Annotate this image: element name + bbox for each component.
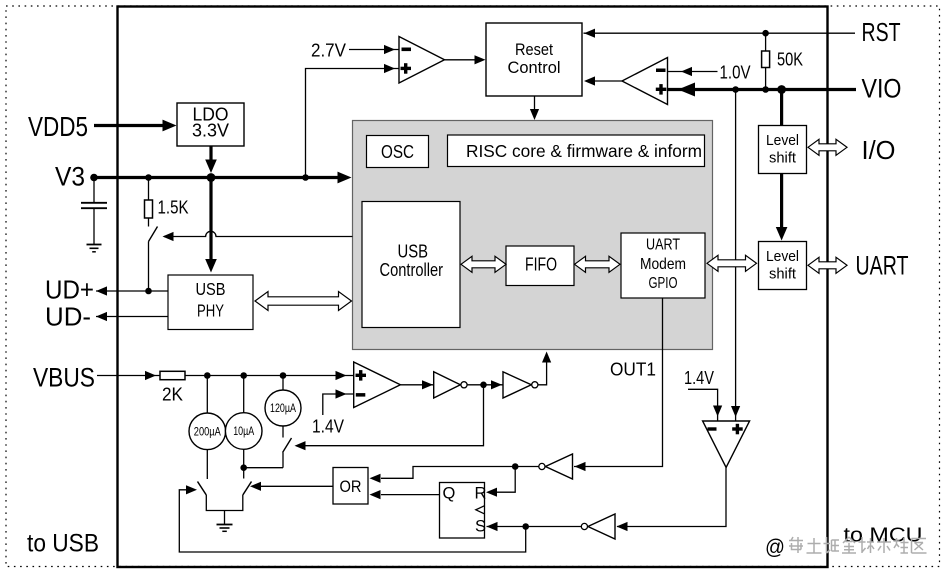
svg-text:to USB: to USB xyxy=(27,530,99,558)
bus arrow UART Modem GPIO to Level shift 2 xyxy=(707,255,757,271)
side label to MCU xyxy=(844,525,923,547)
bus arrow Level shift 2 to UART xyxy=(808,257,847,273)
wire VDD5 to LDO xyxy=(94,120,177,132)
svg-text:2.7V: 2.7V xyxy=(311,40,347,61)
wire feedback loop S node to Q1 base xyxy=(179,490,525,552)
inverter U8 xyxy=(581,514,615,539)
net label OUT1 xyxy=(610,360,656,380)
wire comparator U3 output to Reset Control xyxy=(584,76,622,85)
ground under C1 xyxy=(87,245,102,252)
svg-text:3.3V: 3.3V xyxy=(192,120,230,141)
transistor Q2 xyxy=(243,482,261,496)
pin label RST xyxy=(862,17,901,47)
svg-text:Controller: Controller xyxy=(380,260,444,280)
block UART Modem GPIO xyxy=(621,233,705,298)
switch S2 under I3 xyxy=(244,426,292,468)
svg-text:shift: shift xyxy=(769,266,797,283)
block Level shift 1 xyxy=(759,126,807,174)
svg-text:Q: Q xyxy=(443,485,456,503)
wire V3 to USB PHY xyxy=(205,178,217,273)
net UD+ xyxy=(96,286,168,295)
wire Level shift 1 to Level shift 2 xyxy=(776,174,788,241)
block RISC core and firmware xyxy=(448,135,705,167)
block USB PHY xyxy=(168,275,253,330)
pin label V3 xyxy=(55,162,85,192)
svg-text:1.4V: 1.4V xyxy=(312,417,344,437)
wire comparator U4 output to buffer U5 xyxy=(400,380,433,389)
svg-text:Level: Level xyxy=(766,132,799,149)
capacitor C1 on V3 xyxy=(81,178,107,245)
wire OUT1 from UART block to inverter U9 xyxy=(574,298,663,471)
svg-text:1.0V: 1.0V xyxy=(720,63,751,83)
net VBUS xyxy=(97,371,160,380)
resistor R3 50K xyxy=(762,33,770,89)
svg-text:to MCU: to MCU xyxy=(844,525,923,547)
svg-text:PHY: PHY xyxy=(197,301,224,321)
svg-text:Level: Level xyxy=(766,248,799,265)
node V3 rail xyxy=(90,172,351,184)
regulator U-LDO 3.3V xyxy=(177,103,244,146)
value label 2.7V xyxy=(311,40,347,61)
wire enable from node to switch S2 xyxy=(295,385,484,451)
svg-text:2K: 2K xyxy=(162,385,183,405)
wire Reset Control to core xyxy=(530,96,539,120)
inverter U6 xyxy=(503,372,538,398)
block USB Controller xyxy=(362,202,460,328)
inverter U5 xyxy=(434,372,467,398)
value label 1.4V xyxy=(312,417,344,437)
value label 1.5K xyxy=(158,198,189,218)
svg-text:VBUS: VBUS xyxy=(33,363,95,393)
wire V3 to comparator U2 plus input xyxy=(306,64,400,178)
svg-text:S: S xyxy=(475,518,486,536)
comparator U2 (2.7V detect) xyxy=(399,37,445,84)
current source I3 120uA xyxy=(265,376,301,427)
resistor R2 2K xyxy=(160,371,185,379)
chip outline xyxy=(118,7,828,568)
comparator U7 (1.4V detect) xyxy=(703,421,750,468)
bus arrow Level shift 1 to I/O xyxy=(808,139,847,155)
wire LDO output to node V3 xyxy=(205,146,217,182)
pin label VIO xyxy=(862,74,902,104)
wire 1.4V to comparator U7 minus xyxy=(688,389,722,421)
watermark xyxy=(765,536,927,559)
svg-text:120µA: 120µA xyxy=(270,401,296,415)
svg-text:FIFO: FIFO xyxy=(525,255,557,275)
pin label UD+ xyxy=(45,275,94,305)
wire 1.0V to comparator U3 minus input xyxy=(668,67,718,76)
switch S1 on 1.5K branch xyxy=(149,227,158,292)
value label 1.0V xyxy=(720,63,751,83)
svg-text:shift: shift xyxy=(769,150,797,167)
value label 2K xyxy=(162,385,183,405)
svg-text:R: R xyxy=(475,485,487,503)
svg-text:@: @ xyxy=(765,536,785,559)
bus arrow FIFO to UART block xyxy=(575,256,621,272)
svg-text:VDD5: VDD5 xyxy=(28,111,88,142)
svg-text:1.4V: 1.4V xyxy=(684,368,714,388)
svg-text:V3: V3 xyxy=(55,162,85,192)
svg-text:1.5K: 1.5K xyxy=(158,198,189,218)
pin label VDD5 xyxy=(28,111,88,142)
svg-text:RISC core & firmware & inform: RISC core & firmware & inform xyxy=(466,141,702,161)
svg-text:Reset: Reset xyxy=(515,40,553,59)
ground under Q1 Q2 xyxy=(217,511,233,532)
wire VIO to Level shift 1 xyxy=(780,90,783,126)
wire node to transistor Q2 xyxy=(243,468,245,479)
pin label UD- xyxy=(45,302,91,332)
wire comparator U7 output to inverter U8 xyxy=(617,468,727,532)
svg-text:OR: OR xyxy=(340,477,362,496)
svg-text:USB: USB xyxy=(196,279,226,299)
wire VBUS sense rail xyxy=(185,371,354,380)
net VIO xyxy=(668,83,856,97)
svg-text:OUT1: OUT1 xyxy=(610,360,656,380)
gate OR xyxy=(333,468,368,505)
inverter U9 xyxy=(539,454,573,479)
transistor Q1 xyxy=(186,482,206,496)
emitter bus of Q1 Q2 xyxy=(206,495,243,511)
comparator U4 (VBUS detect) xyxy=(354,362,401,408)
svg-text:Control: Control xyxy=(508,58,561,77)
wire inverter U8 output to flip-flop S input xyxy=(487,522,582,531)
wire U6 output to core xyxy=(538,352,551,385)
svg-text:RST: RST xyxy=(862,17,901,47)
bus arrow USB PHY to core xyxy=(255,292,352,311)
svg-text:OSC: OSC xyxy=(381,141,414,162)
wire comparator U2 output to Reset Control xyxy=(445,55,486,64)
wire 1.4V to comparator U4 minus xyxy=(323,389,354,415)
svg-text:GPIO: GPIO xyxy=(649,275,678,292)
svg-text:50K: 50K xyxy=(777,49,804,70)
wire inverter U9 output to OR input (top) xyxy=(370,463,539,483)
svg-text:10µA: 10µA xyxy=(233,424,254,438)
block Reset Control xyxy=(486,23,582,96)
svg-text:VIO: VIO xyxy=(862,74,902,104)
svg-text:Modem: Modem xyxy=(640,256,686,273)
flip-flop U10 RS latch xyxy=(440,483,487,539)
net RST xyxy=(584,29,856,38)
svg-text:I/O: I/O xyxy=(862,135,896,165)
svg-text:200µA: 200µA xyxy=(194,425,221,439)
net UD- xyxy=(96,312,168,321)
pin label I/O xyxy=(862,135,896,165)
wire suspend control from core to S1 (with hop) xyxy=(163,231,353,241)
block Level shift 2 xyxy=(759,242,807,290)
wire 2.7V to comparator U2 minus input xyxy=(349,45,399,54)
current source I2 10uA xyxy=(225,376,262,472)
wire U5 to U6 with node xyxy=(467,380,503,389)
comparator U3 (VIO detect) xyxy=(622,58,668,105)
resistor R1 1.5K pullup branch xyxy=(145,178,153,227)
svg-text:UART: UART xyxy=(646,237,680,254)
core gray region xyxy=(353,121,713,350)
wire OR gate output to Q2 base xyxy=(261,485,333,487)
svg-text:UD-: UD- xyxy=(45,302,91,332)
block FIFO xyxy=(506,246,574,286)
current source I1 200uA xyxy=(189,376,226,480)
side label to USB xyxy=(27,530,99,558)
svg-text:UART: UART xyxy=(856,251,909,281)
block OSC xyxy=(367,136,429,168)
wire node to flip-flop R input xyxy=(486,467,515,497)
wire flip-flop Q output to OR input (bottom) xyxy=(370,490,440,499)
svg-text:USB: USB xyxy=(398,242,429,262)
pin label UART xyxy=(856,251,909,281)
wire VIO sense to comparator U7 plus xyxy=(731,90,740,422)
svg-text:UD+: UD+ xyxy=(45,275,94,305)
value label 50K xyxy=(777,49,804,70)
bus arrow USB Controller to FIFO xyxy=(461,256,506,272)
value label 1.4V right xyxy=(684,368,714,388)
pin label VBUS xyxy=(33,363,95,393)
